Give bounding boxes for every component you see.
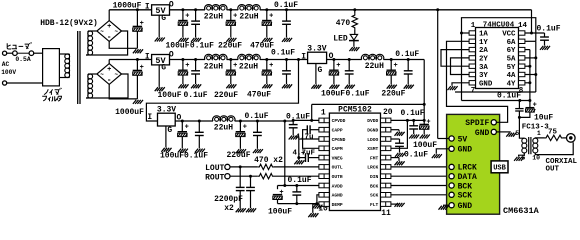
svg-text:GND: GND <box>479 80 493 88</box>
wire rail2 out <box>170 59 206 61</box>
svg-text:2Y: 2Y <box>479 56 488 64</box>
svg-text:LRCK: LRCK <box>458 164 477 173</box>
svg-text:FLT: FLT <box>370 202 379 208</box>
wire fc sec gnd to rca <box>535 142 573 154</box>
wire CPVDD feed riser <box>312 104 319 120</box>
svg-text:G: G <box>161 14 166 23</box>
svg-text:74HCU04: 74HCU04 <box>483 21 515 29</box>
wire SPDIF GND <box>496 131 510 133</box>
svg-text:LDOO: LDOO <box>367 137 378 143</box>
capacitor 0.1uF VCC <box>544 33 546 37</box>
wire CM GND bottom <box>443 204 449 206</box>
svg-text:O: O <box>169 1 174 10</box>
svg-text:OUT: OUT <box>546 165 560 173</box>
wire rail3 <box>175 120 213 122</box>
svg-text:PCM5102: PCM5102 <box>338 105 372 114</box>
svg-text:4A: 4A <box>507 72 516 80</box>
wire A bus <box>525 40 536 42</box>
svg-text:100uF: 100uF <box>160 152 184 161</box>
capacitor 10uF <box>529 101 531 108</box>
wire rail2b out <box>327 59 362 61</box>
svg-text:DEMP: DEMP <box>332 202 343 208</box>
svg-text:DVDD: DVDD <box>367 118 378 124</box>
wire line B <box>462 100 530 102</box>
capacitor 0.1uF LDOO <box>399 139 401 143</box>
label noise filter katakana <box>42 88 61 101</box>
svg-text:220uF: 220uF <box>214 91 238 100</box>
svg-text:1A: 1A <box>479 31 488 39</box>
ground reg4 G <box>311 85 314 89</box>
svg-text:VCC: VCC <box>502 31 516 39</box>
wire LOUT to OUTL <box>274 166 319 168</box>
wire XSMT pullup <box>391 120 407 148</box>
svg-text:I: I <box>145 3 150 12</box>
svg-text:6Y: 6Y <box>507 47 516 55</box>
wire DIN DATA <box>391 175 449 177</box>
capacitor 0.1uF spdif <box>518 101 520 109</box>
svg-text:AVDD: AVDD <box>332 183 343 189</box>
wire bridge1 - to gnd <box>109 41 137 48</box>
svg-text:0.1uF: 0.1uF <box>404 150 428 159</box>
svg-text:22uH: 22uH <box>239 13 258 22</box>
svg-text:SCK: SCK <box>370 193 379 199</box>
inductor 22uH row2 L3 <box>205 54 227 59</box>
svg-text:FMT: FMT <box>370 155 379 161</box>
svg-text:-: - <box>107 76 112 85</box>
ground bridge2 <box>133 100 136 104</box>
svg-text:+: + <box>185 13 189 21</box>
svg-text:XSMT: XSMT <box>367 146 378 152</box>
svg-text:22uH: 22uH <box>239 62 258 71</box>
svg-text:0.1uF: 0.1uF <box>286 112 310 121</box>
svg-text:5Y: 5Y <box>507 64 516 72</box>
inductor 22uH row3 L6 <box>213 116 235 121</box>
wire CPVDD net <box>293 119 312 121</box>
AC input terminal upper <box>3 51 7 55</box>
svg-text:1000uF: 1000uF <box>115 108 144 117</box>
wire 3.3V feed line <box>312 103 425 105</box>
capacitor 1000uF row1 <box>136 8 139 11</box>
wire LRCK <box>391 166 449 168</box>
capacitor 470uF row2 <box>265 58 268 61</box>
capacitor 100uF row2b <box>332 58 335 61</box>
svg-text:~: ~ <box>100 72 104 79</box>
ground DEMP <box>308 213 311 217</box>
PCM5102 pin stubs and pin names <box>319 118 329 123</box>
svg-text:0.1uF: 0.1uF <box>274 1 298 10</box>
svg-text:0.1uF: 0.1uF <box>271 49 295 58</box>
fuse F1 <box>13 51 18 56</box>
resistor 470 right <box>258 174 274 179</box>
svg-text:GND: GND <box>458 202 473 211</box>
inductor 22uH row2 L4 <box>238 54 260 59</box>
svg-text:220uF: 220uF <box>218 41 242 50</box>
wire 2Y 3Y tie <box>451 58 470 75</box>
svg-text:0.1uF: 0.1uF <box>287 176 311 185</box>
svg-text:100uF: 100uF <box>413 141 437 150</box>
svg-text:4Y: 4Y <box>507 80 516 88</box>
svg-text:+: + <box>233 13 237 21</box>
svg-text:~: ~ <box>114 72 118 79</box>
svg-text:4.7uF: 4.7uF <box>293 150 316 158</box>
PCM5102 U1 body <box>329 113 380 210</box>
svg-text:2200pF: 2200pF <box>214 195 243 204</box>
svg-text:CAPM: CAPM <box>332 146 343 152</box>
svg-text:220uF: 220uF <box>226 151 250 160</box>
LED D3 <box>350 34 357 40</box>
capacitor 470uF row1 <box>265 8 268 11</box>
svg-text:SCK: SCK <box>458 192 473 201</box>
ground LED <box>349 47 352 51</box>
svg-text:LRCK: LRCK <box>367 165 378 171</box>
svg-text:CPVDD: CPVDD <box>332 118 346 124</box>
svg-text:AC: AC <box>2 61 10 68</box>
74HCU04 U7 body <box>476 28 519 89</box>
capacitor 0.1uF row2 b <box>285 58 288 61</box>
svg-text:O: O <box>169 51 174 60</box>
svg-text:CM6631A: CM6631A <box>503 206 540 216</box>
transformer secondary winding 2 <box>88 73 97 75</box>
svg-text:DIN: DIN <box>370 174 379 180</box>
svg-text:FC13-3: FC13-3 <box>522 124 550 132</box>
capacitor 0.1uF row2b <box>348 58 351 61</box>
ground reg3 G <box>161 148 164 152</box>
capacitor 100uF row3 <box>181 120 184 123</box>
wire BCK <box>391 185 449 187</box>
wire line A <box>455 91 536 93</box>
regulator 3.3V row3 U5 <box>158 113 176 126</box>
wire CPGND <box>299 139 319 158</box>
svg-text:G: G <box>161 64 166 73</box>
svg-text:ROUT: ROUT <box>205 174 224 183</box>
svg-text:x2: x2 <box>224 204 234 213</box>
FC13-3 primary <box>522 138 527 143</box>
inductor 22uH row1 L1 <box>205 5 227 10</box>
svg-text:I: I <box>145 52 150 61</box>
svg-text:0.5A: 0.5A <box>15 56 31 63</box>
wire CM 5V <box>438 138 449 140</box>
wire DEMP <box>313 204 319 213</box>
svg-text:14: 14 <box>518 22 528 30</box>
svg-text:DGND: DGND <box>367 128 378 134</box>
wire FMT gnd <box>391 157 399 159</box>
wire bridge2 + to rail2 <box>108 60 110 64</box>
svg-text:100uF: 100uF <box>268 208 292 217</box>
transformer primary winding <box>59 53 69 55</box>
resistor 75 <box>545 135 564 140</box>
svg-text:+: + <box>269 62 273 70</box>
wire rail1 out <box>170 9 206 11</box>
wire rail1 to HC04 <box>355 9 532 11</box>
wire rail1 <box>109 9 151 11</box>
inductor 22uH row1 L2 <box>238 5 260 10</box>
capacitor 100uF DVDD <box>423 120 425 124</box>
wire FLT gnd <box>391 203 399 205</box>
svg-text:AGND: AGND <box>332 193 343 199</box>
wire 2A 3A tie <box>441 50 469 67</box>
capacitor 100uF row1 <box>181 8 184 11</box>
wire VCC <box>531 10 533 33</box>
CM6631A U6 body <box>447 114 500 214</box>
AC input terminal lower <box>3 81 7 85</box>
wire bridge1 + to rail1 <box>108 10 110 21</box>
capacitor 220uF row2 <box>229 58 232 61</box>
wire LOUT <box>230 166 258 168</box>
regulator 5V row1 U2 <box>152 5 170 15</box>
FC13-3 core <box>528 137 530 154</box>
74HCU04 pin stubs and names <box>469 31 475 35</box>
wire LDOO cap <box>391 138 400 140</box>
svg-text:0.1uF: 0.1uF <box>497 92 521 101</box>
wire L5 out <box>383 59 424 61</box>
svg-text:GND: GND <box>475 129 490 138</box>
svg-text:HDB-12(9Vx2): HDB-12(9Vx2) <box>40 19 98 28</box>
transformer core <box>77 31 79 104</box>
svg-text:470uF: 470uF <box>247 91 271 100</box>
USB box <box>491 161 508 173</box>
svg-text:OUTL: OUTL <box>332 165 343 171</box>
wire CM GND2 <box>436 149 449 154</box>
wire rail1 cont <box>260 9 355 11</box>
capacitor 0.1uF row1 <box>194 8 197 11</box>
svg-text:0.1uF: 0.1uF <box>190 41 214 50</box>
svg-text:BCK: BCK <box>458 182 473 191</box>
regulator 3.3V row2 U4 <box>308 52 327 63</box>
svg-text:+: + <box>269 13 273 21</box>
wire bridge1 ac return <box>86 31 128 55</box>
svg-text:DATA: DATA <box>458 173 477 182</box>
svg-text:470 x2: 470 x2 <box>254 156 283 165</box>
wire hc GND <box>452 83 469 86</box>
svg-text:22uH: 22uH <box>204 13 223 22</box>
svg-text:+: + <box>185 62 189 70</box>
node feed row3 <box>297 58 300 61</box>
capacitor 0.1uF row3 b <box>256 120 259 123</box>
svg-text:+: + <box>107 66 111 74</box>
svg-text:SPDIF: SPDIF <box>465 119 489 128</box>
wire DGND <box>391 129 399 131</box>
wire L3 to L4 <box>227 59 239 61</box>
wire reg3 G to gnd <box>165 126 167 148</box>
svg-text:+: + <box>107 23 111 31</box>
svg-text:5A: 5A <box>507 56 516 64</box>
svg-text:+: + <box>243 124 247 132</box>
svg-text:I: I <box>147 113 152 122</box>
svg-text:11: 11 <box>381 209 391 218</box>
transformer secondary winding 1 <box>88 30 97 32</box>
resistor 470 left <box>258 164 274 169</box>
svg-text:22uH: 22uH <box>214 124 233 133</box>
node rail3 branch <box>283 120 286 123</box>
svg-text:22uH: 22uH <box>365 62 384 71</box>
svg-text:22uH: 22uH <box>204 62 223 71</box>
wire res to rca <box>563 137 567 139</box>
wire AVDD riser <box>284 121 286 186</box>
capacitor 0.1uF DVDD <box>413 120 415 125</box>
capacitor 2200pF left <box>239 165 242 168</box>
inductor 22uH row2 L5 <box>361 54 383 59</box>
svg-text:1: 1 <box>321 109 326 118</box>
noise filter box <box>43 49 60 86</box>
svg-text:I: I <box>301 52 306 61</box>
svg-text:10uF: 10uF <box>534 114 553 123</box>
capacitor 220uF row2b <box>390 58 393 61</box>
ground analog <box>312 205 315 209</box>
wire DVDD <box>391 119 424 121</box>
wire reg4 G to gnd <box>315 64 317 85</box>
svg-text:-: - <box>107 33 112 42</box>
svg-text:G: G <box>167 126 172 135</box>
svg-text:+: + <box>336 62 340 70</box>
svg-text:0.1uF: 0.1uF <box>183 91 207 100</box>
svg-text:100uF: 100uF <box>321 90 345 99</box>
capacitor 100uF AVDD <box>277 186 279 190</box>
wire reg1 G to gnd <box>158 15 160 37</box>
node CPVDD cap <box>292 119 295 122</box>
svg-text:1: 1 <box>537 130 541 137</box>
capacitor 4.7uF VNEG <box>297 156 300 159</box>
wire AGND DEMP gnd bus <box>278 195 319 204</box>
svg-text:10: 10 <box>532 155 540 162</box>
svg-text:BCK: BCK <box>370 183 379 189</box>
wire L1 to L2 <box>227 9 239 11</box>
wire ROUT <box>230 175 258 177</box>
wire 1A <box>462 32 470 34</box>
svg-text:3Y: 3Y <box>479 72 488 80</box>
wire CM 5V riser <box>437 10 439 139</box>
wire fc primary gnd <box>519 153 525 157</box>
svg-text:+: + <box>185 124 189 132</box>
svg-text:~: ~ <box>114 29 118 36</box>
svg-text:5V: 5V <box>458 135 468 144</box>
ground VNEG <box>298 158 300 160</box>
capacitor 1000uF row2 <box>136 58 139 61</box>
regulator 5V row2 U3 <box>152 55 170 65</box>
svg-text:4.7u: 4.7u <box>295 134 313 142</box>
wire rail3 cont <box>235 120 285 122</box>
svg-text:CPGND: CPGND <box>332 137 346 143</box>
svg-text:G: G <box>317 66 322 75</box>
svg-text:1Y: 1Y <box>479 39 488 47</box>
svg-text:+: + <box>394 62 398 70</box>
capacitor 0.1uF CPVDD <box>292 120 294 124</box>
capacitor 220uF row3 <box>239 120 242 123</box>
svg-text:VNEG: VNEG <box>332 155 343 161</box>
ground bridge1 <box>133 49 136 53</box>
wire reg2 G to gnd <box>158 65 160 87</box>
wire 1Y <box>447 41 508 122</box>
svg-text:3A: 3A <box>479 64 488 72</box>
svg-text:LOUT: LOUT <box>205 164 224 173</box>
svg-text:0.1uF: 0.1uF <box>400 109 424 118</box>
label fuse katakana <box>7 42 31 49</box>
svg-text:470: 470 <box>336 19 351 28</box>
ground reg1 G <box>155 38 158 42</box>
svg-text:+: + <box>233 62 237 70</box>
svg-text:CAPP: CAPP <box>332 128 343 134</box>
bridge rectifier D2 <box>97 64 122 85</box>
svg-text:+: + <box>426 118 430 126</box>
svg-text:GND: GND <box>458 146 473 155</box>
wire rail2 cont <box>260 59 308 61</box>
wire AVDD <box>278 185 319 187</box>
capacitor 100uF row2 <box>181 58 184 61</box>
capacitor 0.1uF AVDD <box>296 186 298 192</box>
svg-text:7: 7 <box>471 87 476 95</box>
wire rail2 <box>109 59 151 61</box>
svg-text:0.1uF: 0.1uF <box>537 25 561 34</box>
svg-text:OUTR: OUTR <box>332 174 343 180</box>
wire fc sec to res <box>535 137 544 139</box>
ground reg2 G <box>155 87 158 91</box>
svg-text:0.1uF: 0.1uF <box>345 90 369 99</box>
wire AC upper to fuse <box>7 52 13 54</box>
wire bridge2 - to gnd <box>109 84 137 99</box>
svg-text:5: 5 <box>515 130 519 137</box>
capacitor 0.1uF row2c <box>407 58 410 61</box>
capacitor 4.7u CAPP-CAPM <box>310 129 319 131</box>
svg-text:20: 20 <box>383 108 393 117</box>
svg-text:1000uF: 1000uF <box>113 1 142 10</box>
svg-text:2A: 2A <box>479 47 488 55</box>
svg-text:75: 75 <box>548 128 558 136</box>
svg-text:~: ~ <box>100 29 104 36</box>
wire AC lower to filter <box>7 82 43 84</box>
svg-text:0.1uF: 0.1uF <box>184 152 208 161</box>
svg-text:LED: LED <box>333 34 348 43</box>
wire 10uF to FC13 <box>519 112 530 138</box>
svg-text:0.1uF: 0.1uF <box>395 50 419 59</box>
svg-text:100V: 100V <box>1 69 16 76</box>
wire rail3 to CPVDD net <box>285 120 293 122</box>
svg-text:0.1uF: 0.1uF <box>244 112 268 121</box>
FC13-3 secondary <box>533 138 538 143</box>
svg-text:USB: USB <box>493 164 506 172</box>
wire ROUT to OUTR <box>274 175 319 177</box>
capacitor 0.1uF row2 <box>194 58 197 61</box>
wire SCK <box>391 194 449 196</box>
wire 3.3V riser <box>423 60 425 121</box>
svg-text:100uF: 100uF <box>157 91 181 100</box>
resistor 470 R3 <box>353 8 356 11</box>
capacitor 220uF row1 <box>229 8 232 11</box>
wire Y bus <box>525 49 530 51</box>
capacitor 0.1uF row3 <box>198 120 201 123</box>
CM6631A left pins <box>449 136 454 141</box>
capacitor 2200pF right <box>249 175 252 178</box>
svg-text:6A: 6A <box>507 39 516 47</box>
bridge rectifier D1 <box>97 21 122 42</box>
wire bridge2 ac return <box>86 74 128 98</box>
wire fuse to filter <box>34 52 43 54</box>
capacitor 0.1uF row1 b <box>285 8 288 11</box>
connector coaxial out <box>567 134 576 143</box>
wire feed to reg3 <box>146 60 298 122</box>
wire osc loop top <box>462 18 536 101</box>
svg-text:100uF: 100uF <box>165 41 189 50</box>
svg-text:220uF: 220uF <box>381 90 405 99</box>
svg-text:1: 1 <box>471 22 476 30</box>
